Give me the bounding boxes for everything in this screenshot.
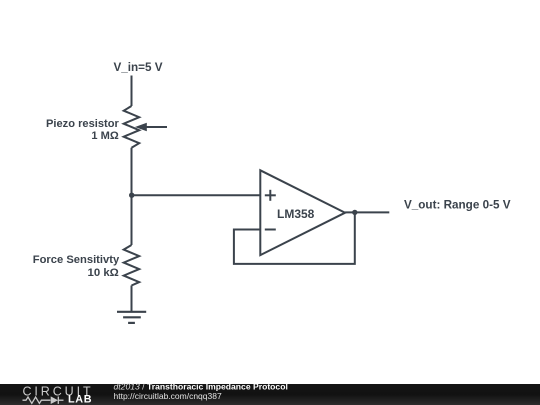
- footer bar: [0, 384, 540, 405]
- op-amp + input pin symbol: [265, 190, 276, 201]
- op-amp - input pin symbol: [265, 229, 276, 231]
- svg-text:1 MΩ: 1 MΩ: [91, 130, 118, 142]
- R1 wiper arrow: [135, 123, 167, 132]
- feedback wire (output to inverting input): [234, 212, 355, 264]
- svg-text:Piezo resistor: Piezo resistor: [46, 118, 119, 130]
- svg-text:Force Sensitivty: Force Sensitivty: [33, 254, 120, 266]
- svg-text:LAB: LAB: [68, 394, 92, 405]
- junction node dot: [129, 193, 134, 198]
- wire R1 to R2 through node: [131, 148, 133, 245]
- output wire: [345, 211, 389, 213]
- wire node to op-amp non-inverting input: [132, 194, 261, 196]
- ground symbol: [117, 312, 146, 323]
- output node dot: [352, 210, 357, 215]
- svg-text:LM358: LM358: [277, 207, 315, 221]
- wire R2 to ground: [131, 286, 133, 312]
- svg-text:V_in=5 V: V_in=5 V: [113, 61, 162, 74]
- svg-text:http://circuitlab.com/cnqq387: http://circuitlab.com/cnqq387: [114, 391, 222, 401]
- resistor R1 (piezo resistor, variable) zigzag: [124, 106, 140, 148]
- wire V_in to R1: [131, 76, 133, 107]
- resistor R2 (force sensitivity) zigzag: [124, 245, 140, 286]
- op-amp U1 triangle body: [260, 170, 345, 255]
- footer logo resistor-diode squiggle: [23, 397, 64, 404]
- svg-text:dt2013 / Transthoracic Impedan: dt2013 / Transthoracic Impedance Protoco…: [114, 382, 288, 392]
- footer logo diode triangle: [51, 396, 58, 404]
- svg-text:10 kΩ: 10 kΩ: [87, 267, 118, 279]
- svg-text:V_out: Range 0-5 V: V_out: Range 0-5 V: [404, 198, 511, 211]
